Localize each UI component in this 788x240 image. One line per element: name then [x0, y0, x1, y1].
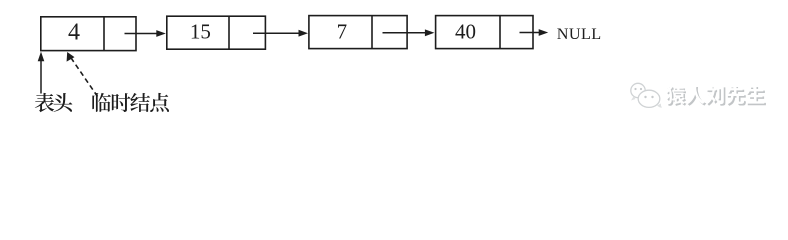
label 临时结点 (temporary node) [92, 93, 111, 112]
linked-list node 4 box [436, 16, 533, 49]
node 2 divider [228, 16, 230, 49]
node 3 divider [371, 16, 373, 49]
svg-text:7: 7 [337, 19, 348, 43]
svg-text:40: 40 [455, 20, 476, 44]
arrow node1 to node2 [125, 33, 158, 35]
watermark icon (two chat-bubble faces) [631, 83, 662, 107]
linked-list node 2 box [167, 16, 266, 49]
node 1 divider [103, 17, 105, 51]
arrow node2 to node3 [253, 32, 300, 34]
node 4 divider [499, 16, 501, 49]
watermark text 猿人刘先生 [667, 87, 766, 106]
linked-list node 3 box [309, 16, 407, 49]
label 表头 (list head) [35, 93, 54, 112]
svg-text:4: 4 [68, 20, 80, 46]
svg-text:15: 15 [190, 20, 211, 44]
arrow node4 to NULL [520, 32, 541, 34]
arrow node3 to node4 [383, 32, 427, 34]
dashed arrow: temporary node pointer [72, 59, 98, 97]
svg-text:NULL: NULL [557, 25, 602, 43]
linked-list node 1 box [41, 17, 136, 51]
head pointer arrow [40, 60, 42, 94]
